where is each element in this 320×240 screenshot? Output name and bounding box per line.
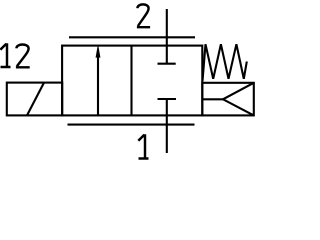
port 2 connection line [69, 36, 195, 38]
blocked port T bar (bottom) [158, 98, 177, 100]
valve position divider [130, 46, 132, 116]
arrow shaft (flow path, left square) [97, 56, 99, 115]
arrow head [96, 46, 100, 57]
pilot actuator box (right) [202, 83, 254, 116]
return spring [203, 44, 247, 81]
pilot actuator box (left) [7, 83, 62, 116]
blocked port T bar (top) [158, 63, 176, 65]
pilot triangle [223, 83, 254, 116]
label 12 [0, 43, 29, 67]
port 2 stub wire [166, 9, 168, 64]
valve body outline [62, 46, 202, 116]
pilot line to triangle apex [202, 98, 223, 100]
label 1 (port) [138, 134, 148, 158]
port 1 stub wire [166, 99, 168, 153]
port 1 connection line [68, 124, 195, 126]
label 2 (port) [137, 4, 150, 27]
pilot box diagonal [27, 83, 44, 116]
